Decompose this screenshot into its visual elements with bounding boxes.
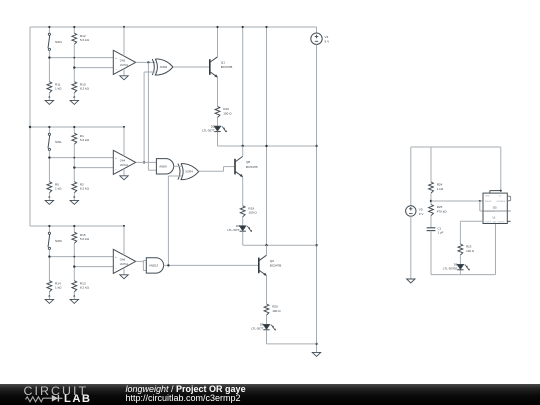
svg-text:100 Ω: 100 Ω [466, 249, 475, 253]
svg-text:8.2 kΩ: 8.2 kΩ [80, 187, 90, 191]
svg-text:OA6: OA6 [120, 258, 126, 262]
svg-text:AND9: AND9 [159, 164, 167, 168]
svg-text:5.6 kΩ: 5.6 kΩ [80, 38, 90, 42]
svg-text:9 V: 9 V [325, 40, 331, 44]
svg-text:LTL-307T: LTL-307T [202, 128, 215, 132]
svg-text:RESET: RESET [485, 195, 490, 197]
svg-text:1 kΩ: 1 kΩ [55, 286, 62, 290]
svg-text:Q8: Q8 [246, 160, 250, 164]
svg-text:100 Ω: 100 Ω [223, 111, 232, 115]
svg-text:−: − [115, 67, 117, 71]
svg-text:9 V: 9 V [419, 212, 425, 216]
svg-text:1 kΩ: 1 kΩ [55, 187, 62, 191]
svg-text:SW6: SW6 [55, 239, 62, 243]
svg-text:+: + [115, 255, 117, 259]
svg-text:AND13: AND13 [149, 264, 158, 268]
svg-text:OA4: OA4 [120, 159, 126, 163]
svg-text:Q1: Q1 [221, 61, 225, 65]
svg-text:XOR2: XOR2 [160, 65, 168, 69]
svg-text:LM741: LM741 [120, 63, 129, 67]
svg-text:−: − [115, 167, 117, 171]
svg-text:THRESHOLD: THRESHOLD [485, 211, 495, 213]
svg-text:LM741: LM741 [120, 262, 129, 266]
svg-text:5.6 kΩ: 5.6 kΩ [80, 237, 90, 241]
svg-text:5.6 kΩ: 5.6 kΩ [80, 138, 90, 142]
svg-text:1 μF: 1 μF [438, 231, 444, 235]
svg-text:+: + [115, 56, 117, 60]
svg-text:1 kΩ: 1 kΩ [55, 87, 62, 91]
svg-text:V5: V5 [419, 207, 423, 211]
svg-text:−: − [115, 266, 117, 270]
svg-text:LTL-307T: LTL-307T [251, 327, 264, 331]
svg-text:1 kΩ: 1 kΩ [437, 187, 444, 191]
svg-text:100 Ω: 100 Ω [272, 309, 281, 313]
svg-text:OUTPUT: OUTPUT [485, 222, 491, 224]
svg-text:XOR4: XOR4 [185, 170, 193, 174]
svg-text:BC547B: BC547B [221, 65, 233, 69]
svg-text:LTL-307T: LTL-307T [227, 228, 240, 232]
svg-text:BC547B: BC547B [246, 165, 258, 169]
svg-text:+: + [115, 156, 117, 160]
svg-text:SW4: SW4 [55, 40, 62, 44]
svg-text:470 kΩ: 470 kΩ [437, 209, 448, 213]
svg-text:SW1: SW1 [55, 140, 62, 144]
svg-text:BC547B: BC547B [270, 264, 282, 268]
svg-text:Q6: Q6 [270, 259, 274, 263]
svg-text:LTL-307EE: LTL-307EE [443, 267, 457, 271]
svg-text:TRIGGER: TRIGGER [485, 201, 493, 203]
svg-text:OA5: OA5 [120, 59, 126, 63]
svg-text:100 Ω: 100 Ω [248, 211, 257, 215]
svg-text:CONTROL: CONTROL [498, 222, 505, 224]
svg-text:LM741: LM741 [120, 163, 129, 167]
svg-text:8.2 kΩ: 8.2 kΩ [80, 87, 90, 91]
svg-text:V4: V4 [325, 35, 329, 39]
svg-text:8.2 kΩ: 8.2 kΩ [80, 286, 90, 290]
